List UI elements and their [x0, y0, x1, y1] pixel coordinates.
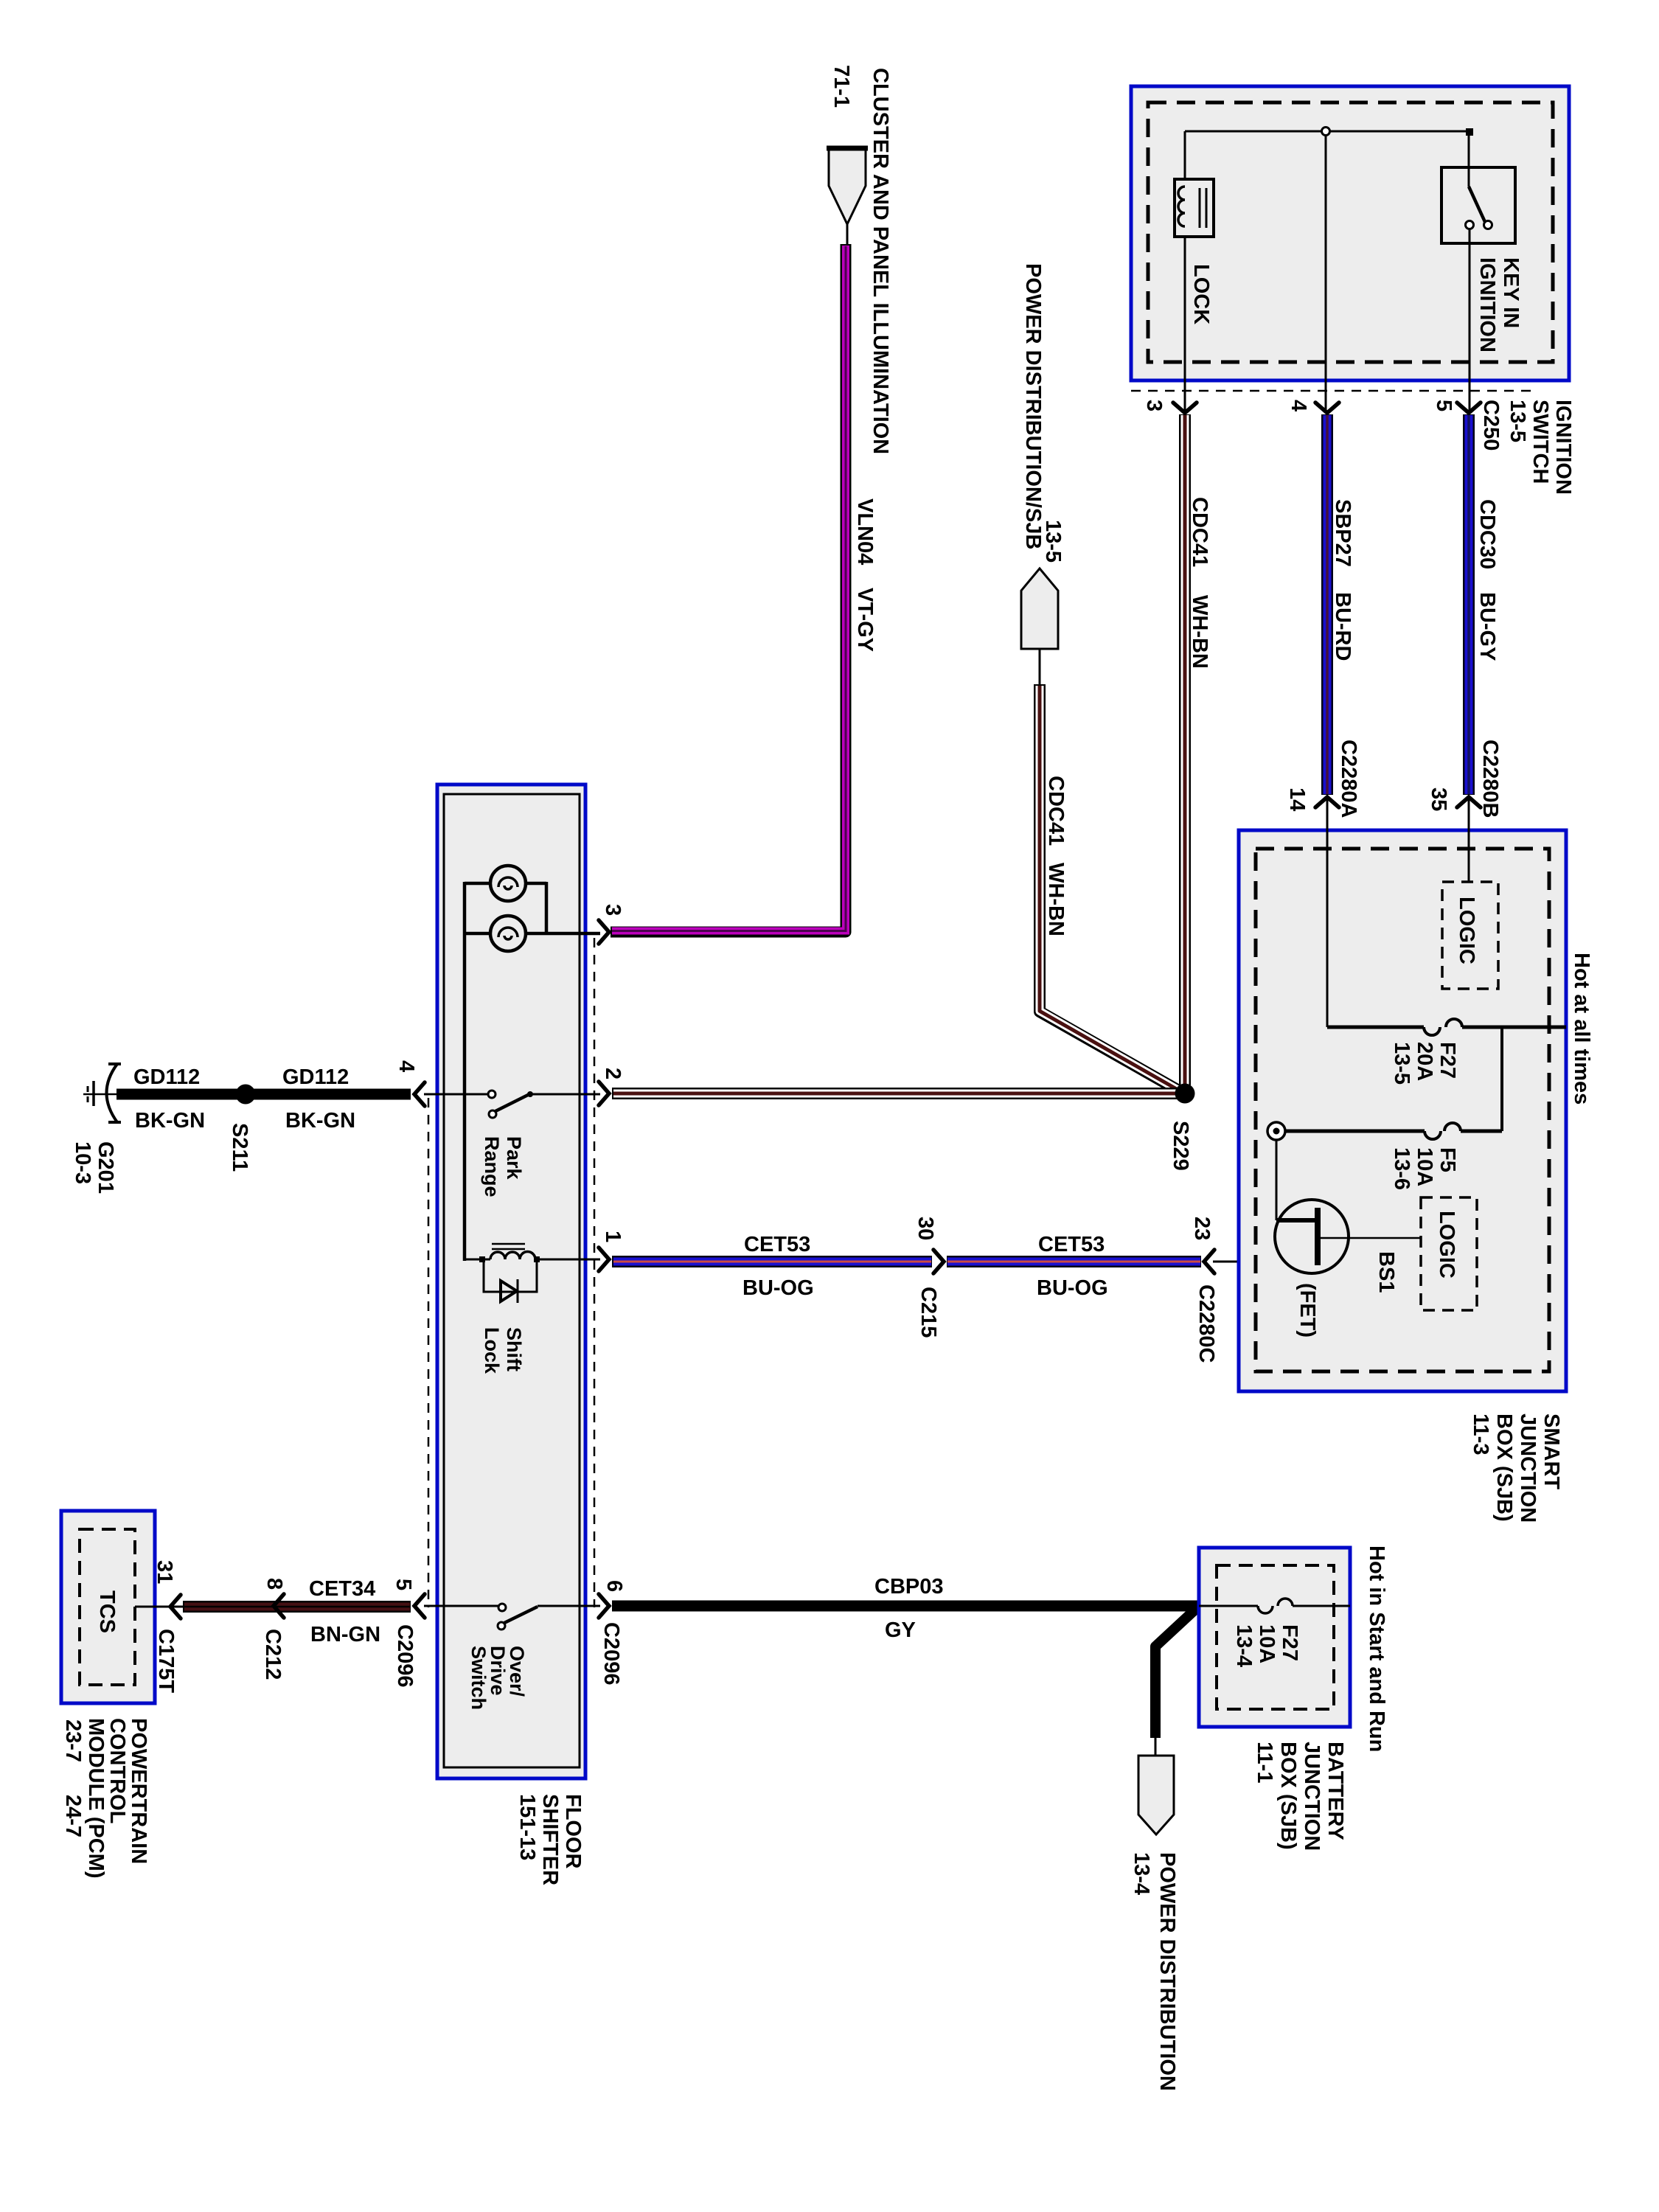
svg-text:20A: 20A: [1413, 1042, 1436, 1081]
svg-text:C250: C250: [1479, 400, 1503, 451]
label CDC41 WH-BN (power distribution wire): [1044, 776, 1068, 936]
node S211 splice: [236, 1085, 256, 1105]
svg-text:5: 5: [392, 1579, 415, 1590]
lamp 2 (shifter illumination): [490, 916, 526, 951]
svg-text:1: 1: [601, 1231, 625, 1242]
lamp 1 (shifter illumination): [490, 866, 526, 901]
wire GD112 BK-GN (ground to S211 to shifter pin 4): [116, 1089, 411, 1100]
svg-text:13-4: 13-4: [1232, 1624, 1256, 1667]
logic block U2 (FET driver): [1421, 1197, 1477, 1310]
svg-text:4: 4: [1287, 400, 1310, 411]
diode (shift lock clamp): [484, 1259, 537, 1292]
label F27 10A 13-4: [1232, 1624, 1301, 1667]
svg-text:CET53: CET53: [1038, 1233, 1105, 1256]
pin 1 arrow (shifter C2096): [599, 1248, 609, 1271]
ignition switch module box: [1131, 86, 1569, 380]
svg-text:CDC41: CDC41: [1188, 497, 1211, 567]
svg-text:POWER DISTRIBUTION: POWER DISTRIBUTION: [1155, 1852, 1179, 2091]
wire: pin 23 to FET source: [1213, 1261, 1319, 1263]
svg-text:Hot at all times: Hot at all times: [1570, 953, 1593, 1105]
svg-text:F27: F27: [1436, 1042, 1459, 1079]
svg-text:LOCK: LOCK: [1189, 264, 1213, 324]
svg-text:31: 31: [153, 1560, 176, 1584]
svg-text:VLN04: VLN04: [853, 498, 877, 565]
svg-text:F27: F27: [1278, 1624, 1301, 1661]
svg-text:2: 2: [601, 1068, 625, 1079]
off-page connector: POWER DISTRIBUTION/SJB: [1021, 568, 1058, 686]
label CET53 BU-OG (left): [742, 1233, 814, 1300]
pin 5 arrow (C250): [1457, 403, 1481, 413]
label Shift Lock: [481, 1327, 525, 1374]
svg-text:WH-BN: WH-BN: [1044, 863, 1068, 936]
wire: TCS output lead: [135, 1606, 184, 1608]
svg-text:G201: G201: [94, 1141, 117, 1194]
switch KEY IN IGNITION: [1441, 132, 1515, 411]
svg-text:S229: S229: [1169, 1121, 1192, 1171]
label F5 10A 13-6: [1390, 1147, 1459, 1190]
wire: LOCK coil top lead: [1184, 131, 1186, 179]
wire CET53 BU-OG (shifter pin 1 to C215): [612, 1256, 932, 1267]
pin 14 arrow (C2280A): [1315, 797, 1339, 807]
pin 2 arrow (shifter C2096): [599, 1082, 609, 1105]
svg-text:35: 35: [1427, 787, 1450, 811]
pin 4 arrow (C250): [1315, 403, 1339, 413]
svg-text:FLOOR: FLOOR: [561, 1794, 585, 1869]
switch Over/Drive: [424, 1604, 600, 1630]
wire: pin 4 internal drop: [1325, 136, 1327, 411]
pin 23 arrow (C2280C): [1204, 1250, 1214, 1273]
svg-text:3: 3: [1142, 400, 1166, 411]
svg-text:CDC41: CDC41: [1044, 776, 1068, 846]
wire CDC30 BU-GY (ignition pin 5 to SJB pin 35): [1463, 414, 1475, 795]
svg-text:8: 8: [262, 1578, 286, 1590]
svg-text:CBP03: CBP03: [874, 1575, 944, 1599]
svg-text:(FET): (FET): [1295, 1283, 1319, 1338]
svg-text:13-5: 13-5: [1390, 1042, 1413, 1085]
label BATTERY JUNCTION BOX (SJB) 11-1: [1253, 1742, 1347, 1851]
label F27 20A 13-5: [1390, 1042, 1459, 1085]
svg-text:KEY IN: KEY IN: [1499, 257, 1523, 328]
svg-text:BU-GY: BU-GY: [1475, 592, 1499, 661]
svg-text:BK-GN: BK-GN: [135, 1109, 205, 1133]
svg-text:F5: F5: [1436, 1147, 1459, 1172]
pin 6 arrow (shifter C2096): [599, 1594, 609, 1618]
svg-text:VT-GY: VT-GY: [853, 588, 877, 652]
svg-text:4: 4: [394, 1060, 418, 1072]
battery junction box (BJB): [1199, 1548, 1350, 1727]
svg-text:BN-GN: BN-GN: [310, 1623, 380, 1646]
wire VLN04 VT-GY (cluster to shifter pin 3): [611, 244, 846, 932]
label CDC30 BU-GY: [1475, 499, 1499, 661]
connector C250 dashed boundary: [1131, 390, 1534, 392]
svg-text:GY: GY: [885, 1618, 916, 1642]
label VLN04 VT-GY: [853, 498, 877, 652]
svg-text:IGNITION: IGNITION: [1475, 257, 1499, 352]
label Over/Drive Switch: [467, 1646, 528, 1710]
pin 5 arrow left (shifter C2096): [414, 1594, 425, 1618]
svg-text:BU-OG: BU-OG: [742, 1276, 814, 1300]
svg-text:BK-GN: BK-GN: [285, 1109, 355, 1133]
svg-text:LOGIC: LOGIC: [1435, 1211, 1458, 1279]
fuse F5 10A (SJB) wire: [1285, 1123, 1502, 1139]
connector C2096 dashed boundary left: [428, 1098, 430, 1607]
pin 3 arrow (C250): [1173, 403, 1197, 413]
node: corner junction square: [1466, 128, 1473, 136]
node S229 splice: [1175, 1084, 1195, 1104]
label CET53 BU-OG (right): [1037, 1233, 1108, 1300]
connector C2096 dashed boundary right: [594, 938, 596, 1607]
pin 31 arrow (C175T): [170, 1595, 181, 1618]
pin 3 arrow (shifter C2096): [599, 920, 609, 944]
svg-text:Switch: Switch: [467, 1646, 490, 1710]
label POWER DISTRIBUTION 13-4: [1130, 1852, 1179, 2091]
svg-text:TCS: TCS: [95, 1590, 119, 1633]
svg-text:C2280C: C2280C: [1194, 1284, 1218, 1363]
powertrain control module (PCM) box: [61, 1511, 155, 1703]
floor shifter box: [437, 785, 585, 1778]
svg-text:SBP27: SBP27: [1331, 499, 1354, 567]
svg-text:CONTROL: CONTROL: [105, 1718, 129, 1823]
svg-text:24-7: 24-7: [61, 1795, 85, 1837]
ground G201: [83, 1064, 121, 1122]
svg-text:C215: C215: [917, 1287, 940, 1338]
svg-text:10-3: 10-3: [71, 1141, 94, 1184]
wire CDC41 WH-BN (power distribution to S229): [1040, 684, 1181, 1092]
label SBP27 BU-RD: [1331, 499, 1354, 661]
wire: CBP03 branch to power distribution: [1155, 1609, 1196, 1756]
svg-text:BU-RD: BU-RD: [1331, 592, 1354, 661]
svg-text:Lock: Lock: [481, 1327, 503, 1374]
wire CET34 BN-GN (PCM to shifter pin 5): [183, 1601, 411, 1613]
node: terminal ring (F5 output): [1267, 1122, 1285, 1140]
svg-text:IGNITION: IGNITION: [1551, 400, 1575, 495]
svg-text:Park: Park: [503, 1136, 525, 1180]
svg-text:13-5: 13-5: [1041, 520, 1065, 563]
svg-text:151-13: 151-13: [515, 1794, 539, 1860]
svg-text:CET53: CET53: [744, 1233, 810, 1256]
svg-text:C2096: C2096: [393, 1624, 417, 1687]
svg-text:SWITCH: SWITCH: [1528, 400, 1552, 484]
svg-text:Hot in Start and Run: Hot in Start and Run: [1365, 1545, 1388, 1752]
svg-text:10A: 10A: [1255, 1624, 1279, 1663]
label SMART JUNCTION BOX (SJB) 11-3: [1469, 1413, 1563, 1523]
connector C215 arrow (pin 30): [933, 1250, 944, 1273]
svg-text:11-1: 11-1: [1253, 1742, 1276, 1783]
wire: CDC30 continuation into SJB: [1468, 797, 1470, 882]
wire: hot bus drop to F5: [1500, 1027, 1503, 1131]
svg-text:71-1: 71-1: [829, 65, 853, 108]
svg-text:POWER DISTRIBUTION/SJB: POWER DISTRIBUTION/SJB: [1021, 263, 1045, 549]
svg-text:14: 14: [1285, 787, 1309, 811]
svg-text:LOGIC: LOGIC: [1455, 897, 1478, 964]
wire: lamp parallel branch: [465, 882, 600, 1261]
label FLOOR SHIFTER 151-13: [515, 1794, 585, 1885]
svg-text:10A: 10A: [1413, 1147, 1436, 1186]
svg-text:BOX (SJB): BOX (SJB): [1276, 1742, 1300, 1850]
wire CET53 BU-OG (C215 to SJB pin 23): [947, 1256, 1201, 1267]
svg-text:C2280A: C2280A: [1337, 740, 1360, 818]
svg-text:MODULE (PCM): MODULE (PCM): [84, 1718, 108, 1878]
svg-text:5: 5: [1432, 400, 1455, 411]
svg-text:C175T: C175T: [154, 1629, 178, 1693]
svg-text:WH-BN: WH-BN: [1188, 595, 1211, 669]
wire CDC41 WH-BN (S229 to shifter pin 2): [612, 1088, 1180, 1099]
wire: SBP27 continuation into SJB: [1326, 797, 1329, 1027]
svg-text:CET34: CET34: [309, 1577, 375, 1601]
svg-text:SMART: SMART: [1540, 1413, 1563, 1489]
smart junction box (SJB): [1239, 830, 1566, 1391]
svg-text:CDC30: CDC30: [1475, 499, 1499, 569]
wire: FET gate to logic: [1321, 1237, 1421, 1239]
svg-text:Range: Range: [481, 1136, 503, 1197]
label CBP03 GY: [874, 1575, 944, 1642]
svg-text:BOX (SJB): BOX (SJB): [1492, 1413, 1516, 1522]
connector C212 arrow (pin 8): [274, 1594, 284, 1618]
svg-text:3: 3: [601, 904, 625, 916]
svg-text:11-3: 11-3: [1469, 1413, 1492, 1455]
pin 35 arrow (C2280B): [1457, 797, 1481, 807]
coil Shift Lock solenoid with diode: [465, 1244, 600, 1303]
fuse F27 10A (BJB) wire: [1199, 1599, 1350, 1613]
label CET34 BN-GN: [309, 1577, 380, 1646]
label POWER DISTRIBUTION/SJB 13-5: [1021, 263, 1065, 563]
svg-text:C2280B: C2280B: [1478, 740, 1502, 818]
svg-text:6: 6: [602, 1580, 626, 1592]
svg-text:23-7: 23-7: [61, 1719, 85, 1762]
label KEY IN IGNITION: [1475, 257, 1523, 352]
svg-text:BATTERY: BATTERY: [1324, 1742, 1347, 1840]
wire: terminal to FET drain: [1276, 1140, 1315, 1220]
label CDC41 WH-BN (pin3 wire): [1188, 497, 1211, 669]
svg-text:CLUSTER AND PANEL ILLUMINATION: CLUSTER AND PANEL ILLUMINATION: [869, 68, 892, 454]
svg-text:13-4: 13-4: [1130, 1852, 1153, 1895]
svg-text:C2096: C2096: [599, 1622, 623, 1685]
svg-text:C212: C212: [261, 1629, 285, 1680]
wire: LOCK coil bottom lead to pin 3: [1184, 237, 1186, 411]
svg-text:S211: S211: [228, 1123, 251, 1172]
svg-text:13-6: 13-6: [1390, 1147, 1413, 1190]
switch Park Range: [424, 1091, 600, 1118]
label Park Range: [481, 1136, 525, 1197]
svg-text:23: 23: [1190, 1217, 1214, 1240]
wire: ignition internal top bus: [1185, 131, 1469, 133]
svg-text:POWERTRAIN: POWERTRAIN: [127, 1718, 150, 1864]
svg-text:13-5: 13-5: [1506, 400, 1529, 442]
label POWERTRAIN CONTROL MODULE (PCM) 23-7 24-7: [61, 1718, 150, 1878]
svg-text:SHIFTER: SHIFTER: [538, 1794, 562, 1885]
svg-text:BU-OG: BU-OG: [1037, 1276, 1108, 1300]
off-page connector: CLUSTER AND PANEL ILLUMINATION: [827, 148, 868, 244]
svg-text:Shift: Shift: [503, 1327, 525, 1371]
node: pin-4 tee junction circle: [1322, 128, 1330, 136]
svg-text:GD112: GD112: [282, 1065, 349, 1089]
wire SBP27 BU-RD (ignition pin 4 to SJB pin 14): [1321, 414, 1333, 795]
transistor BS1 (FET high-side driver): [1275, 1200, 1349, 1273]
coil LOCK (ignition key lock solenoid): [1175, 179, 1214, 237]
pin 4 arrow (shifter C2096 left): [414, 1082, 425, 1106]
svg-text:JUNCTION: JUNCTION: [1300, 1742, 1324, 1851]
wire CDC41 WH-BN (ignition pin 3 to S229): [1179, 414, 1191, 1085]
wire CBP03 GY (shifter pin 6 to BJB): [612, 1601, 1199, 1612]
off-page connector: POWER DISTRIBUTION 13-4: [1138, 1756, 1174, 1834]
svg-text:BS1: BS1: [1374, 1251, 1398, 1293]
svg-text:JUNCTION: JUNCTION: [1516, 1413, 1540, 1523]
svg-text:GD112: GD112: [133, 1065, 200, 1089]
fuse F27 20A (SJB) wire: [1327, 1019, 1566, 1035]
label G201 10-3: [71, 1141, 117, 1194]
svg-text:30: 30: [914, 1217, 937, 1240]
label IGNITION SWITCH 13-5 C250: [1479, 400, 1575, 495]
logic block U1 (key-in input): [1442, 882, 1498, 989]
